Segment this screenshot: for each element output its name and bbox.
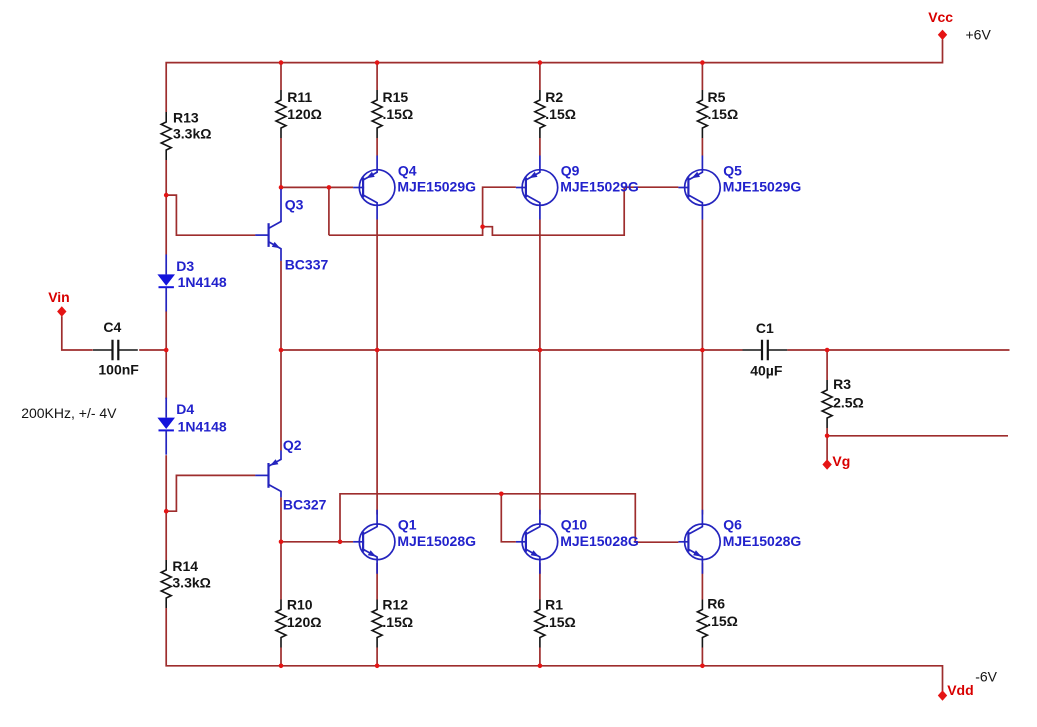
wire R6 to bottom rail: [701, 648, 703, 666]
svg-text:C1: C1: [756, 320, 774, 336]
junction mid row R3: [825, 348, 830, 353]
svg-text:Vg: Vg: [832, 453, 850, 469]
junction Q2-R10-base row: [279, 540, 284, 545]
transistor Q10: [516, 510, 558, 574]
svg-text:Q4: Q4: [398, 162, 417, 178]
junction base row riser: [338, 540, 343, 545]
junction bottom rail R12: [375, 664, 380, 669]
svg-text:+6V: +6V: [966, 27, 992, 43]
wire mid row to Q1: [376, 350, 378, 515]
junction mid row Q5-Q6: [700, 348, 705, 353]
svg-text:R13: R13: [173, 110, 199, 126]
svg-text:Q2: Q2: [283, 437, 302, 453]
junction R13-D3-Q3base: [164, 193, 169, 198]
svg-text:R1: R1: [545, 597, 563, 613]
wire D3 to mid row: [165, 311, 167, 350]
wire mid row to D4: [165, 350, 167, 399]
junction R3-Vg: [825, 434, 830, 439]
svg-text:1N4148: 1N4148: [178, 274, 227, 290]
wire rail to R5: [701, 63, 703, 90]
svg-text:1N4148: 1N4148: [178, 419, 227, 435]
wire output mid row: [281, 349, 743, 351]
capacitor C4: [93, 340, 138, 361]
svg-text:Q5: Q5: [723, 162, 742, 178]
net Vin diamond: [57, 306, 66, 316]
wire Q1 to R12: [376, 563, 378, 600]
svg-text:R11: R11: [287, 89, 312, 105]
transistor Q9: [516, 156, 558, 220]
svg-text:Q3: Q3: [285, 197, 304, 213]
wire mid row to Q2 emitter: [280, 350, 282, 451]
resistor R14 body: [161, 560, 171, 608]
transistor Q3: [255, 189, 281, 261]
junction D4-R14-Q2base: [164, 509, 169, 514]
wire Q2 base step to node: [166, 475, 255, 511]
svg-text:Q1: Q1: [398, 517, 417, 533]
resistor R3 body: [822, 380, 832, 428]
wire node to D3: [165, 195, 167, 254]
wire R15 to Q4: [376, 138, 378, 156]
wire R2 to Q9: [539, 138, 541, 156]
transistor Q4: [353, 156, 395, 220]
svg-text:R5: R5: [708, 89, 726, 105]
wire Vin drop and to C4: [62, 316, 93, 350]
wire node to Q3 base (step): [166, 195, 255, 235]
svg-text:Q10: Q10: [561, 517, 588, 533]
wire bus to Q10 base: [501, 494, 516, 542]
wire C4 to bias node: [139, 349, 166, 351]
resistor R5 body: [697, 90, 707, 138]
svg-text:R3: R3: [833, 376, 851, 392]
wire R1 to bottom rail: [539, 648, 541, 666]
svg-text:Q6: Q6: [723, 517, 742, 533]
junction bus Q10 branch: [499, 492, 504, 497]
junction mid row Q9-Q10: [538, 348, 543, 353]
wire R3 bottom to Vg node: [826, 428, 828, 436]
junction bottom rail R6: [700, 664, 705, 669]
resistor R13 body: [161, 112, 171, 160]
svg-text:.15Ω: .15Ω: [382, 614, 413, 630]
svg-text:C4: C4: [103, 319, 121, 335]
svg-text:-6V: -6V: [975, 669, 997, 685]
net Vdd diamond: [938, 690, 947, 700]
junction bottom rail R1: [538, 664, 543, 669]
svg-text:Vdd: Vdd: [947, 682, 973, 698]
net Vcc diamond: [938, 30, 947, 40]
wire mid row to Q10: [539, 350, 541, 515]
svg-text:MJE15028G: MJE15028G: [560, 533, 639, 549]
svg-text:R2: R2: [545, 89, 563, 105]
svg-text:MJE15029G: MJE15029G: [723, 179, 802, 195]
resistor R15 body: [372, 90, 382, 138]
svg-text:100nF: 100nF: [98, 362, 139, 378]
svg-text:.15Ω: .15Ω: [707, 613, 738, 629]
svg-text:Vin: Vin: [48, 289, 70, 305]
wire Q3 emitter to mid row: [280, 261, 282, 350]
svg-text:.15Ω: .15Ω: [545, 106, 576, 122]
diode D3: [157, 254, 175, 311]
transistor Q6: [678, 510, 720, 574]
svg-text:Vcc: Vcc: [928, 9, 953, 25]
wire mid row to Q6: [701, 350, 703, 515]
transistor Q5: [678, 156, 720, 220]
svg-text:D3: D3: [176, 258, 194, 274]
wire Q4 base row: [281, 186, 353, 188]
wire rail to R11: [280, 63, 282, 90]
svg-text:BC327: BC327: [283, 497, 327, 513]
junction bus Q9 branch: [480, 224, 485, 229]
wire bottom bias bus to Q6 base: [340, 494, 678, 542]
wire Vcc to top rail and left drop to R13: [166, 40, 942, 113]
svg-text:MJE15029G: MJE15029G: [397, 179, 476, 195]
wire Q2 collector to base node: [280, 497, 282, 542]
svg-text:3.3kΩ: 3.3kΩ: [172, 574, 210, 590]
resistor R2 body: [535, 90, 545, 138]
svg-text:.15Ω: .15Ω: [383, 106, 414, 122]
svg-text:R15: R15: [383, 89, 409, 105]
wire rail to R2: [539, 63, 541, 90]
resistor R1 body: [535, 600, 545, 648]
wire R14 to bottom rail and rail to Vdd: [166, 608, 942, 691]
wire node to R14: [165, 511, 167, 560]
svg-text:.15Ω: .15Ω: [545, 614, 576, 630]
wire R5 to Q5: [701, 138, 703, 156]
capacitor C1: [743, 340, 788, 361]
wire node to R10: [280, 542, 282, 600]
svg-text:.15Ω: .15Ω: [708, 106, 739, 122]
wire R13 bottom to node: [165, 160, 167, 195]
wire rail to R15: [376, 63, 378, 90]
wire R10 to bottom rail: [280, 648, 282, 666]
svg-text:40µF: 40µF: [750, 363, 783, 379]
junction R11-Q4 base node: [279, 185, 284, 190]
wire D4 to node: [165, 455, 167, 511]
svg-text:MJE15029G: MJE15029G: [560, 179, 639, 195]
wire base row drop to bus: [328, 187, 330, 235]
wire Q1 base row: [281, 541, 353, 543]
svg-text:MJE15028G: MJE15028G: [723, 533, 802, 549]
resistor R10 body: [276, 600, 286, 648]
junction top rail R2: [538, 60, 543, 65]
wire Q5 to mid row: [701, 220, 703, 351]
wire R12 to bottom rail: [376, 648, 378, 666]
junction mid row Q4-Q1: [375, 348, 380, 353]
junction top rail R11: [279, 60, 284, 65]
svg-text:3.3kΩ: 3.3kΩ: [173, 126, 211, 142]
wire Q10 to R1: [539, 563, 541, 600]
wire Vg node row to right edge: [827, 435, 1008, 437]
wire R11 to Q4-base node: [280, 138, 282, 187]
wire Vg node to Vg: [826, 436, 828, 460]
resistor R11 body: [276, 90, 286, 138]
svg-text:R6: R6: [707, 596, 725, 612]
svg-text:120Ω: 120Ω: [287, 106, 322, 122]
resistor R6 body: [697, 600, 707, 648]
net Vg diamond: [822, 459, 831, 469]
svg-text:R14: R14: [172, 558, 198, 574]
wire top bias bus with jog to Q5 base: [329, 187, 679, 235]
junction top rail R15: [375, 60, 380, 65]
transistor Q1: [353, 510, 395, 574]
svg-text:MJE15028G: MJE15028G: [397, 533, 476, 549]
junction bottom rail R10: [279, 664, 284, 669]
junction top rail R5: [700, 60, 705, 65]
resistor R12 body: [372, 600, 382, 648]
svg-text:200KHz, +/- 4V: 200KHz, +/- 4V: [21, 405, 117, 421]
svg-text:Q9: Q9: [561, 162, 580, 178]
svg-text:120Ω: 120Ω: [287, 614, 322, 630]
wire Q6 to R6: [701, 563, 703, 600]
wire Q9 to mid row: [539, 220, 541, 351]
wire bus to Q9 base: [483, 187, 516, 227]
wire C1 to right edge: [787, 349, 1009, 351]
junction mid row Q3-Q2: [279, 348, 284, 353]
svg-text:D4: D4: [176, 401, 194, 417]
svg-text:R10: R10: [287, 597, 313, 613]
svg-text:R12: R12: [382, 597, 408, 613]
junction mid row D-string: [164, 348, 169, 353]
svg-text:2.5Ω: 2.5Ω: [833, 395, 864, 411]
svg-text:BC337: BC337: [285, 256, 329, 272]
transistor Q2: [255, 450, 281, 497]
wire Q4 to mid row: [376, 220, 378, 351]
wire R3 top lead: [826, 350, 828, 380]
junction base row to bus: [327, 185, 332, 190]
diode D4: [157, 398, 175, 455]
